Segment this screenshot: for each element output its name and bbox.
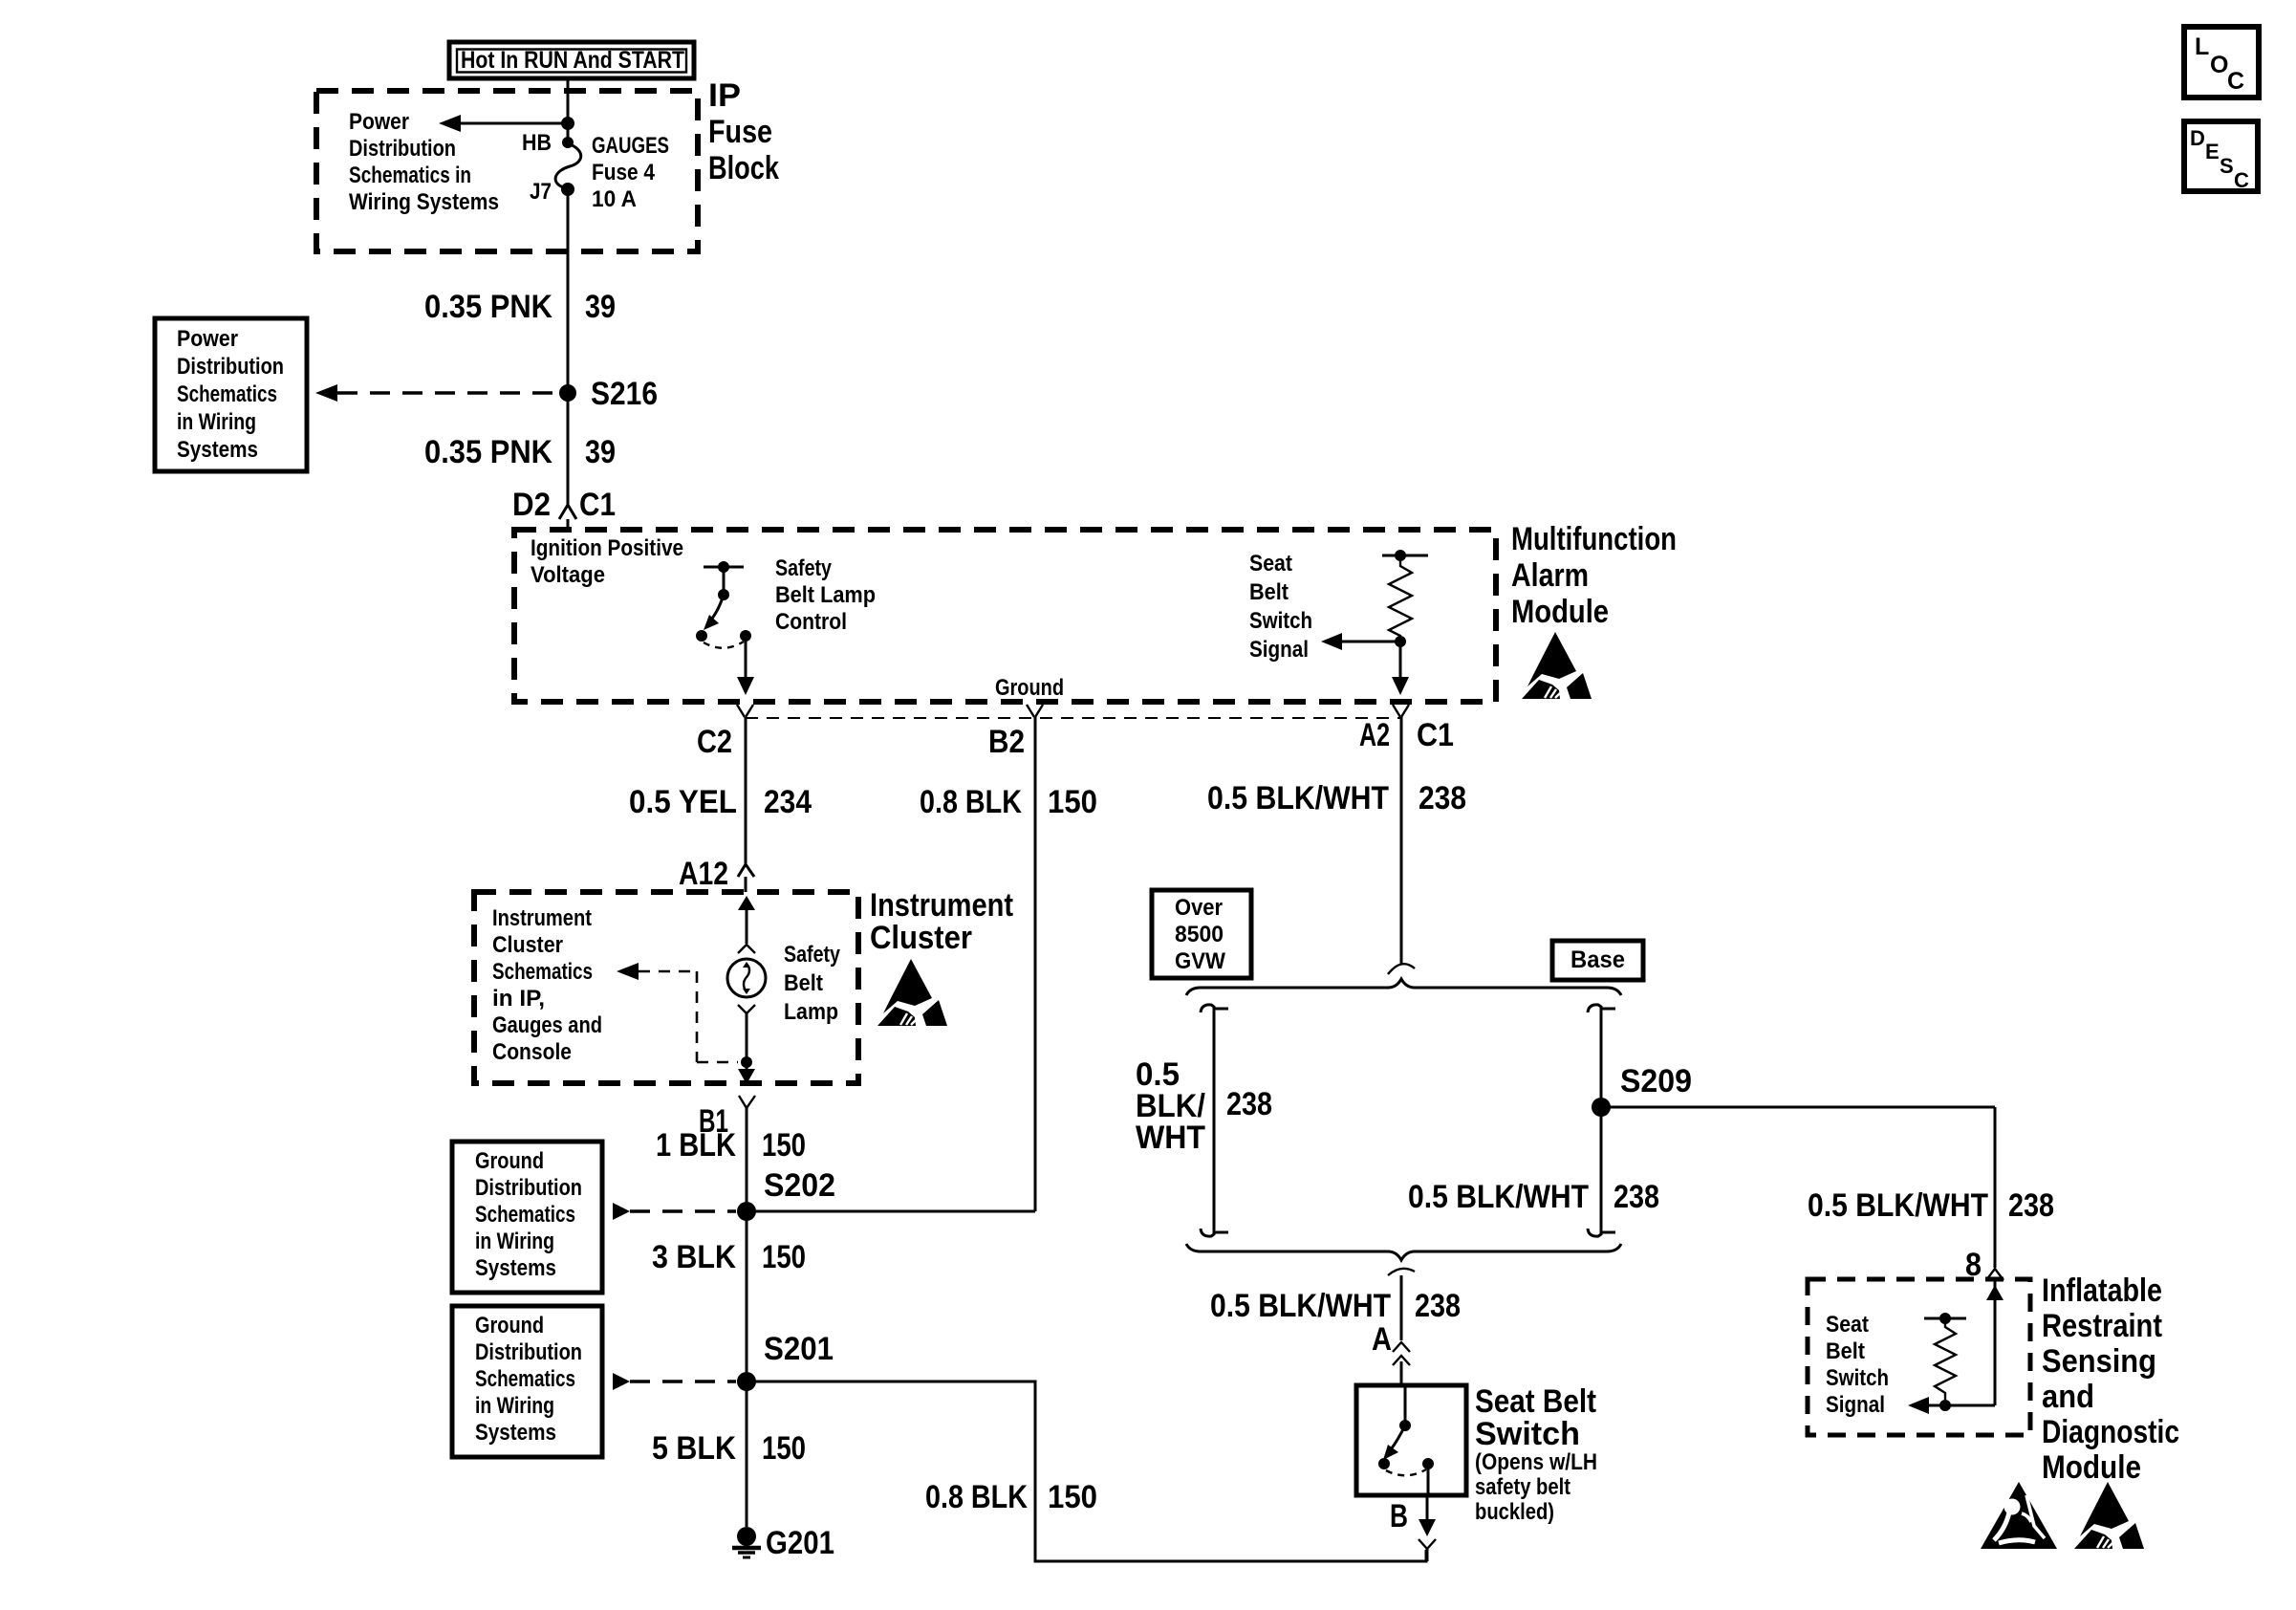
svg-text:in Wiring: in Wiring <box>475 1229 554 1254</box>
svg-text:39: 39 <box>585 434 616 470</box>
svg-text:GVW: GVW <box>1175 948 1225 974</box>
svg-text:Ground: Ground <box>475 1313 544 1338</box>
svg-text:238: 238 <box>2008 1187 2054 1224</box>
svg-text:Ground: Ground <box>995 675 1064 701</box>
svg-text:Fuse 4: Fuse 4 <box>592 160 656 185</box>
svg-text:E: E <box>2205 140 2220 163</box>
svg-text:C1: C1 <box>579 487 616 523</box>
svg-text:Systems: Systems <box>475 1255 556 1281</box>
svg-text:3 BLK: 3 BLK <box>652 1239 736 1275</box>
svg-text:Switch: Switch <box>1475 1416 1580 1452</box>
svg-text:Hot In RUN And START: Hot In RUN And START <box>461 47 684 74</box>
svg-text:G201: G201 <box>766 1525 834 1561</box>
svg-text:Gauges and: Gauges and <box>492 1012 602 1038</box>
svg-text:S202: S202 <box>764 1167 835 1204</box>
svg-text:Cluster: Cluster <box>870 920 972 956</box>
svg-text:in IP,: in IP, <box>492 986 545 1012</box>
svg-text:Distribution: Distribution <box>475 1175 582 1201</box>
svg-text:IP: IP <box>708 77 741 114</box>
svg-text:0.8 BLK: 0.8 BLK <box>925 1479 1028 1515</box>
svg-text:S216: S216 <box>591 376 658 412</box>
svg-text:Safety: Safety <box>784 942 841 968</box>
svg-text:Multifunction: Multifunction <box>1511 521 1677 557</box>
svg-text:238: 238 <box>1415 1288 1461 1324</box>
svg-text:Voltage: Voltage <box>531 562 605 588</box>
svg-text:0.5 BLK/WHT: 0.5 BLK/WHT <box>1808 1187 1988 1224</box>
svg-text:Schematics: Schematics <box>475 1366 575 1392</box>
svg-text:Seat: Seat <box>1826 1312 1869 1338</box>
svg-text:A2: A2 <box>1359 717 1390 753</box>
svg-text:Seat Belt: Seat Belt <box>1475 1383 1596 1420</box>
svg-text:0.35 PNK: 0.35 PNK <box>424 434 552 470</box>
svg-text:S: S <box>2220 154 2234 178</box>
svg-text:Instrument: Instrument <box>492 905 592 931</box>
svg-text:Belt: Belt <box>1826 1338 1865 1364</box>
svg-text:Module: Module <box>2042 1449 2141 1486</box>
svg-text:Signal: Signal <box>1249 637 1309 663</box>
svg-text:Inflatable: Inflatable <box>2042 1273 2162 1309</box>
svg-text:Systems: Systems <box>475 1420 556 1446</box>
svg-text:Schematics: Schematics <box>492 959 593 985</box>
svg-text:J7: J7 <box>530 179 552 205</box>
svg-text:Distribution: Distribution <box>349 136 456 162</box>
svg-text:WHT: WHT <box>1136 1120 1205 1156</box>
svg-text:Distribution: Distribution <box>475 1339 582 1365</box>
svg-text:Over: Over <box>1175 895 1223 921</box>
svg-text:Diagnostic: Diagnostic <box>2042 1414 2179 1450</box>
svg-text:0.5 BLK/WHT: 0.5 BLK/WHT <box>1408 1179 1589 1215</box>
svg-text:Safety: Safety <box>775 555 833 581</box>
svg-text:Wiring Systems: Wiring Systems <box>349 189 499 215</box>
svg-text:(Opens w/LH: (Opens w/LH <box>1475 1449 1597 1475</box>
svg-text:8500: 8500 <box>1175 922 1224 947</box>
svg-text:150: 150 <box>762 1430 806 1467</box>
svg-text:0.8 BLK: 0.8 BLK <box>920 784 1022 820</box>
svg-text:238: 238 <box>1419 780 1466 816</box>
svg-text:D2: D2 <box>512 487 551 523</box>
svg-text:in Wiring: in Wiring <box>177 409 256 435</box>
svg-text:B: B <box>1390 1498 1408 1534</box>
svg-text:150: 150 <box>1048 784 1097 820</box>
svg-text:238: 238 <box>1226 1086 1272 1122</box>
svg-text:Instrument: Instrument <box>870 887 1013 924</box>
svg-text:Belt: Belt <box>1249 579 1289 605</box>
svg-text:Restraint: Restraint <box>2042 1308 2162 1344</box>
svg-text:0.5 BLK/WHT: 0.5 BLK/WHT <box>1210 1288 1391 1324</box>
svg-text:Signal: Signal <box>1826 1392 1885 1418</box>
svg-text:0.35 PNK: 0.35 PNK <box>424 289 552 325</box>
svg-text:buckled): buckled) <box>1475 1499 1554 1525</box>
svg-text:C2: C2 <box>697 724 732 760</box>
svg-text:C1: C1 <box>1417 717 1454 753</box>
svg-text:Switch: Switch <box>1249 608 1312 634</box>
svg-text:HB: HB <box>522 130 552 156</box>
svg-text:Switch: Switch <box>1826 1365 1889 1391</box>
svg-text:150: 150 <box>762 1127 806 1164</box>
svg-text:Sensing: Sensing <box>2042 1343 2156 1380</box>
svg-text:Power: Power <box>349 109 409 135</box>
svg-text:A: A <box>1372 1321 1392 1358</box>
svg-text:Ground: Ground <box>475 1148 544 1174</box>
svg-text:S201: S201 <box>764 1331 834 1367</box>
svg-text:Belt Lamp: Belt Lamp <box>775 582 876 608</box>
svg-text:10 A: 10 A <box>592 186 637 212</box>
svg-text:Control: Control <box>775 609 847 635</box>
svg-text:150: 150 <box>1048 1479 1097 1515</box>
svg-text:in Wiring: in Wiring <box>475 1393 554 1419</box>
svg-text:GAUGES: GAUGES <box>592 133 669 159</box>
svg-text:Distribution: Distribution <box>177 354 284 380</box>
svg-text:L: L <box>2195 33 2209 60</box>
svg-text:safety belt: safety belt <box>1475 1474 1570 1500</box>
svg-text:0.5 BLK/WHT: 0.5 BLK/WHT <box>1207 780 1389 816</box>
svg-text:B2: B2 <box>988 724 1025 760</box>
svg-text:150: 150 <box>762 1239 806 1275</box>
svg-text:5 BLK: 5 BLK <box>652 1430 736 1467</box>
svg-text:Console: Console <box>492 1039 572 1065</box>
svg-text:Module: Module <box>1511 594 1609 630</box>
svg-text:Base: Base <box>1570 946 1625 973</box>
svg-text:O: O <box>2210 52 2228 78</box>
svg-text:Lamp: Lamp <box>784 999 838 1025</box>
svg-text:C: C <box>2234 168 2249 192</box>
svg-text:Fuse: Fuse <box>708 114 772 150</box>
svg-text:1 BLK: 1 BLK <box>656 1127 736 1164</box>
svg-text:234: 234 <box>764 784 812 820</box>
svg-text:D: D <box>2190 126 2205 150</box>
svg-text:Systems: Systems <box>177 437 258 463</box>
svg-text:Power: Power <box>177 326 238 352</box>
svg-text:238: 238 <box>1614 1179 1659 1215</box>
svg-text:Schematics in: Schematics in <box>349 163 471 188</box>
svg-text:39: 39 <box>585 289 616 325</box>
svg-text:A12: A12 <box>679 856 728 892</box>
svg-text:Schematics: Schematics <box>475 1202 575 1228</box>
svg-text:C: C <box>2227 68 2244 95</box>
svg-text:0.5 YEL: 0.5 YEL <box>629 784 737 820</box>
svg-text:Schematics: Schematics <box>177 381 277 407</box>
svg-text:Ignition Positive: Ignition Positive <box>531 535 683 561</box>
svg-text:and: and <box>2042 1379 2094 1415</box>
svg-text:Belt: Belt <box>784 970 823 996</box>
svg-text:Seat: Seat <box>1249 551 1292 577</box>
svg-text:Block: Block <box>708 150 779 186</box>
svg-text:Alarm: Alarm <box>1511 557 1589 594</box>
svg-text:Cluster: Cluster <box>492 932 563 958</box>
svg-text:S209: S209 <box>1620 1063 1692 1099</box>
